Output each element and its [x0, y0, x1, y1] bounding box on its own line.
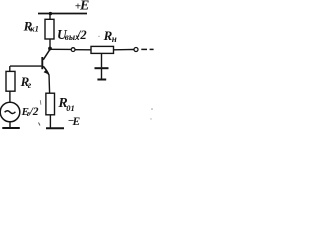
svg-text:н: н	[112, 34, 117, 44]
svg-text:/2: /2	[29, 106, 39, 118]
svg-text:г: г	[28, 81, 32, 91]
svg-text:/2: /2	[76, 28, 87, 42]
svg-text:E: E	[72, 116, 81, 128]
svg-text:01: 01	[66, 103, 75, 113]
svg-text:к1: к1	[30, 23, 39, 33]
svg-text:E: E	[79, 0, 89, 14]
